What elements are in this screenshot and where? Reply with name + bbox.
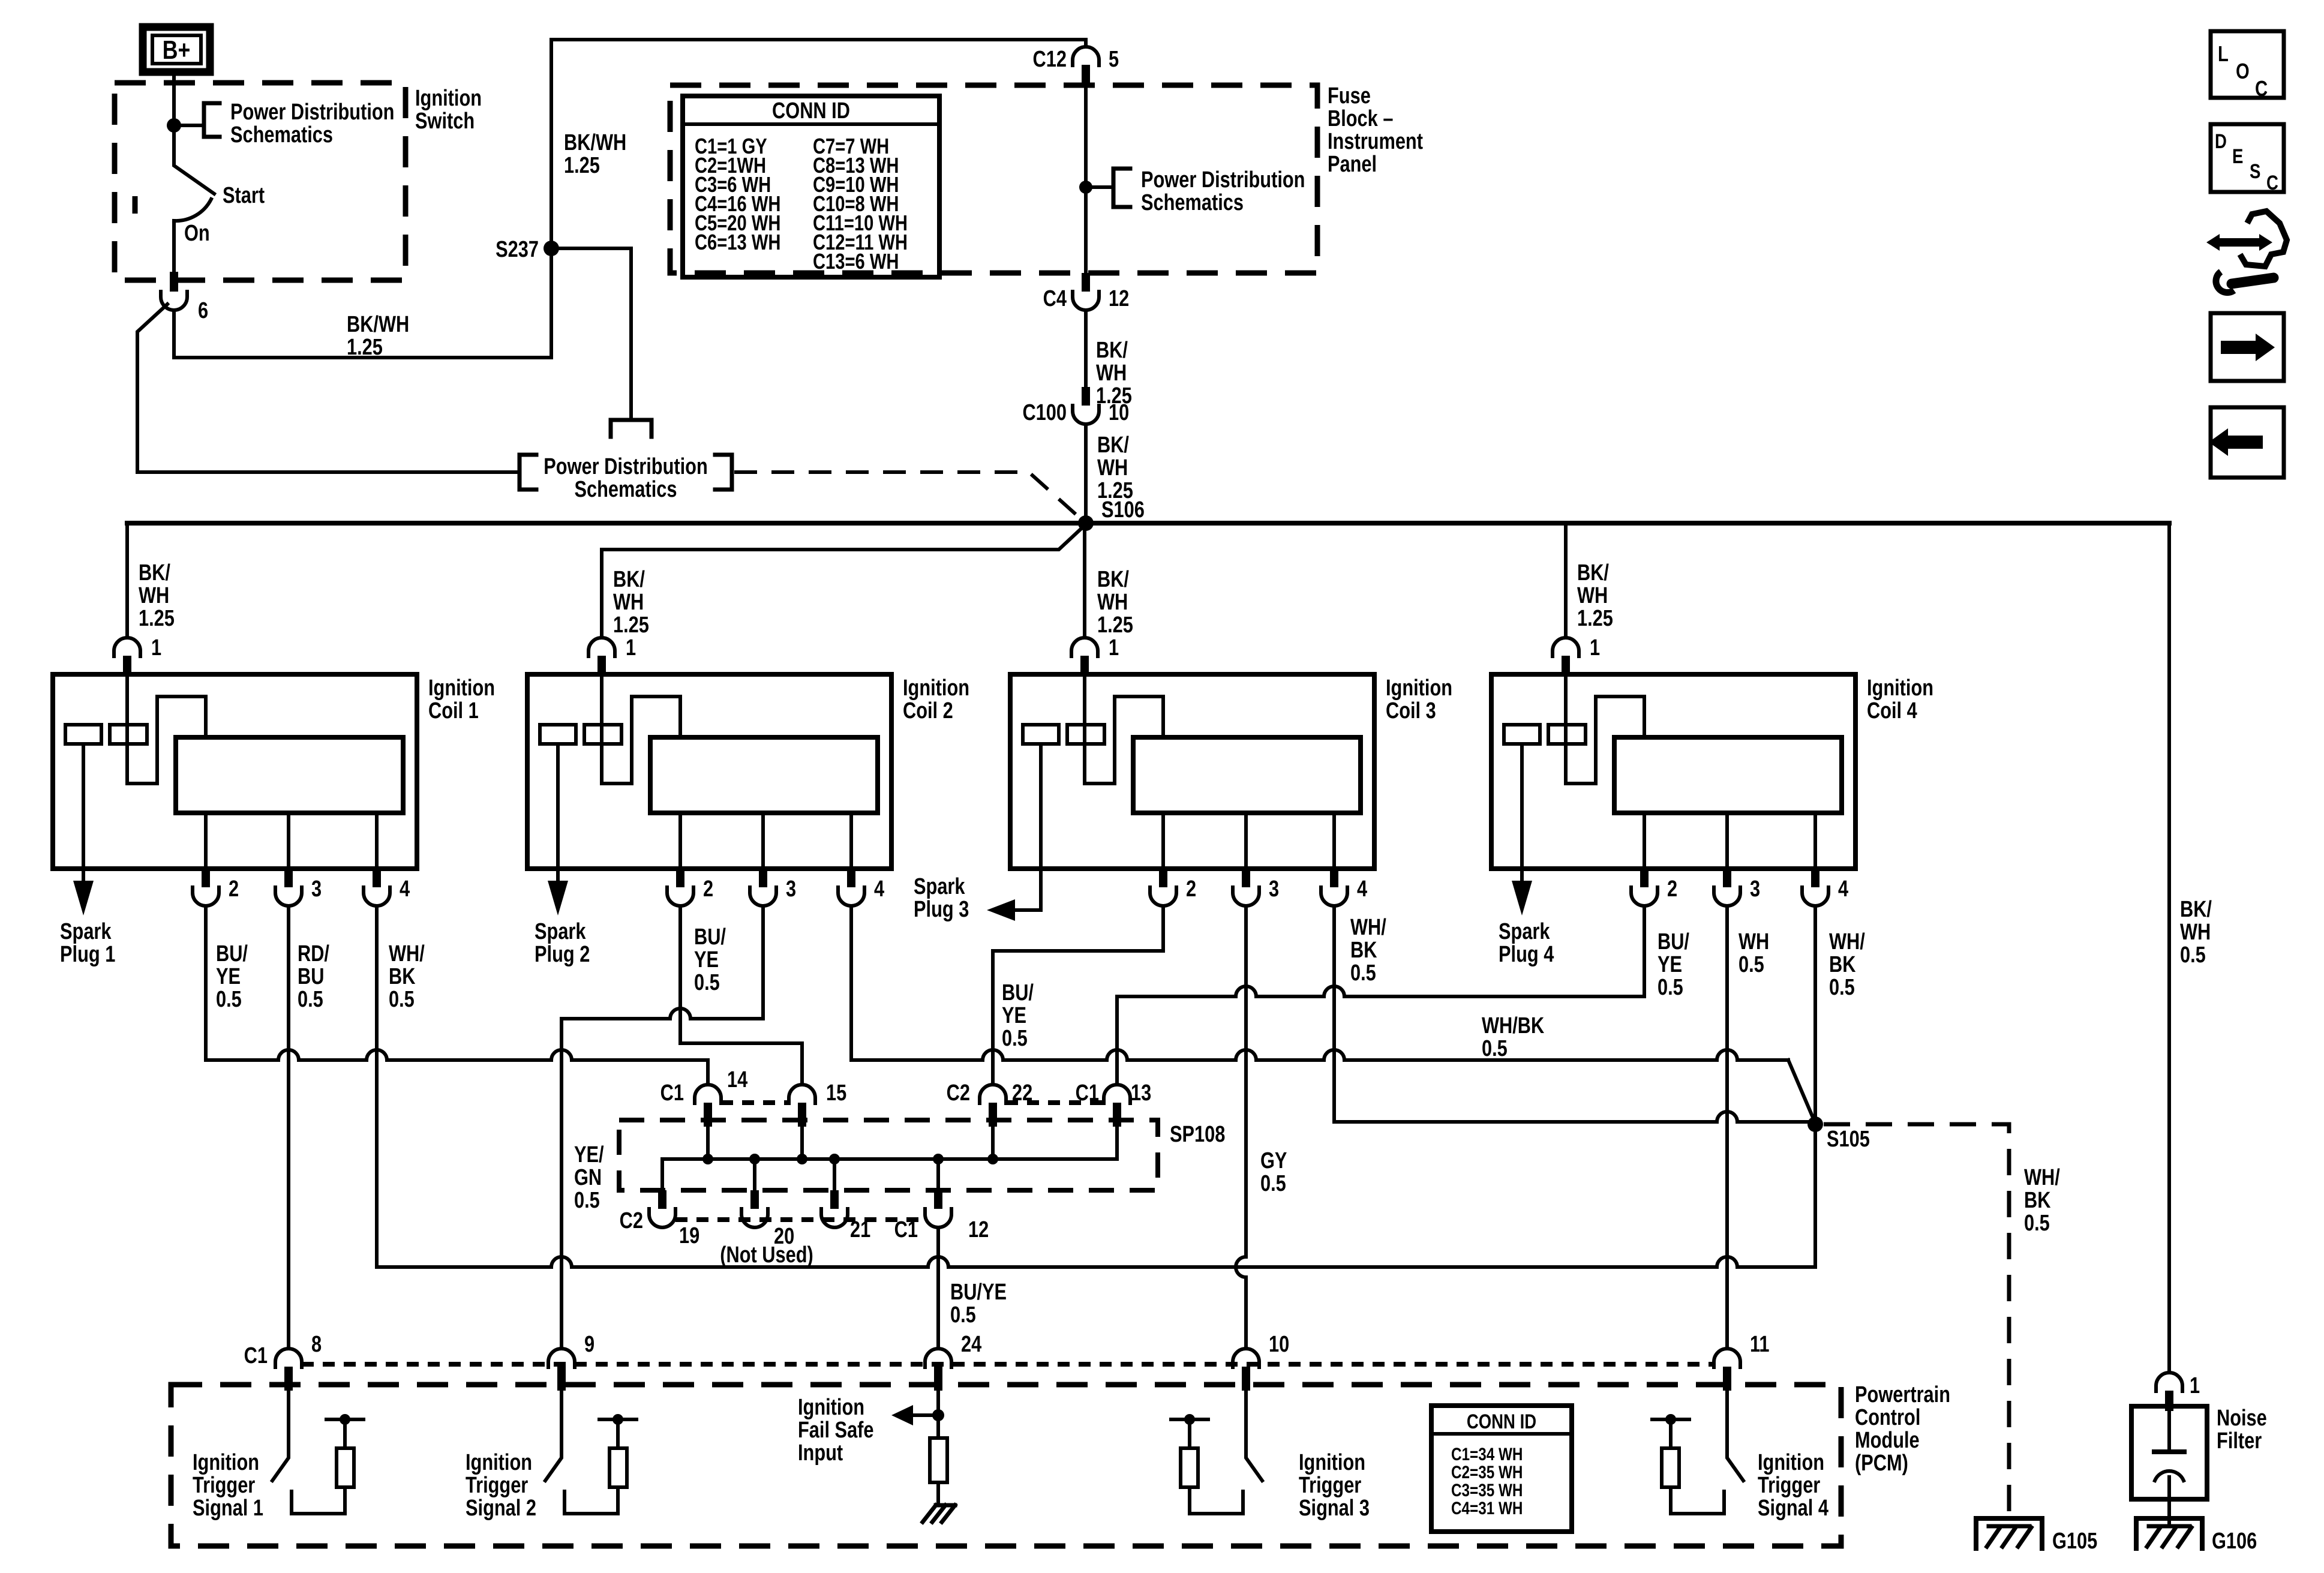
svg-text:13: 13: [1131, 1080, 1151, 1106]
svg-text:1.25: 1.25: [564, 153, 600, 178]
svg-text:22: 22: [1012, 1080, 1032, 1106]
svg-text:0.5: 0.5: [2180, 942, 2206, 968]
svg-text:0.5: 0.5: [574, 1188, 600, 1213]
svg-text:C: C: [2255, 76, 2268, 101]
svg-text:1.25: 1.25: [1097, 613, 1133, 638]
svg-text:12: 12: [968, 1217, 989, 1242]
svg-text:Ignition: Ignition: [1299, 1450, 1365, 1475]
svg-text:Powertrain: Powertrain: [1855, 1382, 1950, 1407]
svg-text:1: 1: [626, 635, 636, 661]
svg-text:Ignition: Ignition: [1867, 676, 1933, 701]
svg-text:D: D: [2215, 130, 2227, 152]
svg-text:C2=35 WH: C2=35 WH: [1451, 1462, 1523, 1482]
svg-text:Ignition: Ignition: [903, 676, 969, 701]
svg-text:Ignition: Ignition: [193, 1450, 259, 1475]
svg-text:BK/: BK/: [139, 560, 170, 586]
svg-text:B+: B+: [163, 36, 191, 65]
svg-text:0.5: 0.5: [216, 987, 242, 1012]
svg-text:C2: C2: [620, 1208, 643, 1233]
svg-text:Plug 4: Plug 4: [1499, 942, 1554, 967]
svg-text:0.5: 0.5: [2024, 1211, 2050, 1236]
svg-text:Fuse: Fuse: [1328, 83, 1371, 109]
svg-text:0.5: 0.5: [1002, 1026, 1028, 1051]
svg-text:0.5: 0.5: [1739, 952, 1764, 977]
svg-text:(Not Used): (Not Used): [720, 1242, 813, 1268]
svg-text:2: 2: [1667, 876, 1677, 902]
svg-text:GY: GY: [1260, 1148, 1287, 1173]
svg-text:Panel: Panel: [1328, 152, 1377, 177]
svg-text:GN: GN: [574, 1165, 602, 1190]
svg-text:11: 11: [1750, 1332, 1770, 1357]
svg-text:BK/WH: BK/WH: [564, 130, 626, 155]
svg-text:3: 3: [786, 876, 796, 902]
svg-text:BK: BK: [2024, 1188, 2050, 1213]
svg-text:Ignition: Ignition: [428, 676, 495, 701]
svg-text:YE/: YE/: [574, 1142, 604, 1167]
svg-text:C4: C4: [1043, 286, 1067, 311]
svg-text:9: 9: [584, 1332, 594, 1357]
svg-text:S237: S237: [496, 237, 539, 262]
svg-text:5: 5: [1109, 47, 1119, 72]
svg-text:YE: YE: [216, 964, 241, 989]
svg-text:O: O: [2236, 59, 2250, 83]
svg-text:8: 8: [311, 1332, 322, 1357]
svg-text:G105: G105: [2052, 1529, 2097, 1554]
svg-text:Spark: Spark: [1499, 919, 1550, 944]
svg-text:C1: C1: [660, 1080, 684, 1106]
svg-text:Block –: Block –: [1328, 106, 1393, 131]
svg-text:Trigger: Trigger: [466, 1473, 528, 1498]
svg-text:Power Distribution: Power Distribution: [1141, 167, 1305, 193]
svg-text:BU/: BU/: [1002, 980, 1034, 1005]
svg-text:1.25: 1.25: [1577, 606, 1613, 631]
svg-text:4: 4: [1838, 876, 1849, 902]
svg-text:BU/: BU/: [694, 924, 726, 950]
svg-text:C12: C12: [1033, 47, 1067, 72]
svg-text:1: 1: [1590, 635, 1600, 661]
svg-text:Schematics: Schematics: [574, 477, 677, 502]
svg-text:WH: WH: [139, 583, 169, 608]
svg-text:BK/: BK/: [613, 567, 645, 592]
svg-text:6: 6: [198, 298, 208, 323]
svg-text:BU: BU: [298, 964, 324, 989]
svg-text:SP108: SP108: [1170, 1122, 1225, 1147]
svg-text:G106: G106: [2212, 1529, 2257, 1554]
svg-text:Module: Module: [1855, 1428, 1920, 1453]
svg-text:0.5: 0.5: [1350, 960, 1376, 986]
svg-text:E: E: [2232, 145, 2243, 167]
svg-text:C1=34 WH: C1=34 WH: [1451, 1444, 1523, 1464]
svg-text:S: S: [2250, 160, 2260, 182]
svg-text:1: 1: [2190, 1373, 2200, 1398]
svg-text:YE: YE: [1002, 1003, 1026, 1028]
svg-text:Filter: Filter: [2217, 1428, 2262, 1454]
svg-text:BK: BK: [1350, 938, 1377, 963]
svg-text:0.5: 0.5: [1658, 975, 1683, 1000]
svg-text:C2: C2: [947, 1080, 970, 1106]
svg-text:4: 4: [400, 876, 410, 902]
svg-text:BK/: BK/: [1097, 433, 1129, 458]
svg-text:1: 1: [151, 635, 161, 661]
svg-text:BK/: BK/: [1096, 338, 1128, 363]
svg-text:WH/: WH/: [389, 941, 425, 966]
svg-text:C4=31 WH: C4=31 WH: [1451, 1498, 1523, 1518]
svg-text:Signal 1: Signal 1: [193, 1496, 263, 1521]
svg-text:2: 2: [1186, 876, 1196, 902]
svg-text:Fail Safe: Fail Safe: [798, 1418, 874, 1443]
svg-text:0.5: 0.5: [298, 987, 323, 1012]
svg-text:1.25: 1.25: [139, 606, 175, 631]
svg-text:1: 1: [1109, 635, 1119, 661]
svg-text:Ignition: Ignition: [1386, 676, 1452, 701]
svg-text:2: 2: [229, 876, 239, 902]
svg-text:WH: WH: [1096, 361, 1127, 386]
svg-text:BU/YE: BU/YE: [950, 1280, 1007, 1305]
svg-text:WH: WH: [613, 590, 644, 615]
svg-text:WH: WH: [1097, 590, 1128, 615]
svg-text:C1: C1: [1076, 1080, 1099, 1106]
svg-text:S105: S105: [1827, 1127, 1870, 1152]
svg-text:Plug 1: Plug 1: [60, 942, 115, 967]
svg-text:(PCM): (PCM): [1855, 1451, 1908, 1476]
svg-text:0.5: 0.5: [1829, 975, 1855, 1000]
svg-text:24: 24: [961, 1332, 982, 1357]
svg-text:Power Distribution: Power Distribution: [544, 454, 707, 479]
svg-text:15: 15: [826, 1080, 846, 1106]
svg-text:Plug 3: Plug 3: [914, 897, 969, 922]
svg-text:BK: BK: [1829, 952, 1855, 977]
svg-text:BU/: BU/: [216, 941, 248, 966]
svg-text:0.5: 0.5: [1260, 1171, 1286, 1196]
svg-text:Start: Start: [223, 183, 265, 208]
svg-text:14: 14: [727, 1067, 748, 1092]
svg-text:Trigger: Trigger: [193, 1473, 255, 1498]
svg-text:0.5: 0.5: [950, 1302, 976, 1328]
svg-text:19: 19: [679, 1223, 699, 1248]
svg-text:C1: C1: [894, 1217, 918, 1242]
svg-text:3: 3: [1750, 876, 1760, 902]
svg-text:12: 12: [1109, 286, 1129, 311]
svg-text:Spark: Spark: [535, 919, 586, 944]
svg-text:BK/: BK/: [2180, 897, 2212, 922]
svg-text:4: 4: [874, 876, 885, 902]
svg-text:YE: YE: [694, 947, 719, 972]
svg-text:Spark: Spark: [60, 919, 112, 944]
svg-text:CONN ID: CONN ID: [772, 98, 850, 124]
svg-text:BU/: BU/: [1658, 929, 1689, 954]
svg-text:21: 21: [850, 1217, 870, 1242]
svg-text:Coil 1: Coil 1: [428, 698, 479, 724]
svg-text:Spark: Spark: [914, 874, 965, 899]
svg-text:C: C: [2266, 171, 2278, 194]
svg-text:C13=6 WH: C13=6 WH: [813, 249, 899, 274]
svg-text:Noise: Noise: [2217, 1406, 2267, 1431]
svg-text:Schematics: Schematics: [230, 122, 333, 148]
svg-text:Ignition: Ignition: [466, 1450, 532, 1475]
svg-text:Ignition: Ignition: [798, 1395, 864, 1420]
svg-text:WH: WH: [1097, 455, 1128, 481]
svg-text:0.5: 0.5: [694, 970, 720, 995]
svg-text:S106: S106: [1101, 497, 1145, 523]
svg-text:BK: BK: [389, 964, 415, 989]
svg-text:Signal 4: Signal 4: [1758, 1496, 1829, 1521]
svg-text:2: 2: [703, 876, 713, 902]
svg-text:WH/BK: WH/BK: [1482, 1013, 1544, 1038]
svg-text:Switch: Switch: [415, 109, 475, 134]
svg-text:0.5: 0.5: [1482, 1036, 1508, 1061]
svg-text:On: On: [184, 221, 210, 246]
svg-text:Instrument: Instrument: [1328, 129, 1423, 154]
svg-text:WH/: WH/: [2024, 1165, 2060, 1190]
svg-text:BK/: BK/: [1097, 567, 1129, 592]
svg-text:YE: YE: [1658, 952, 1682, 977]
svg-text:RD/: RD/: [298, 941, 329, 966]
svg-text:10: 10: [1269, 1332, 1289, 1357]
svg-text:Control: Control: [1855, 1405, 1920, 1430]
svg-text:Ignition: Ignition: [415, 86, 482, 111]
svg-text:WH: WH: [2180, 920, 2211, 945]
svg-text:Signal 3: Signal 3: [1299, 1496, 1370, 1521]
svg-text:Power Distribution: Power Distribution: [230, 100, 394, 125]
svg-text:WH: WH: [1739, 929, 1769, 954]
svg-text:Ignition: Ignition: [1758, 1450, 1824, 1475]
svg-text:Coil 3: Coil 3: [1386, 698, 1436, 724]
svg-text:1.25: 1.25: [347, 335, 383, 360]
svg-text:1.25: 1.25: [613, 613, 649, 638]
svg-text:4: 4: [1357, 876, 1368, 902]
svg-text:C100: C100: [1022, 400, 1067, 425]
svg-text:Input: Input: [798, 1440, 843, 1466]
svg-text:WH: WH: [1577, 583, 1608, 608]
svg-text:WH/: WH/: [1350, 915, 1386, 940]
svg-text:Plug 2: Plug 2: [535, 942, 590, 967]
svg-text:C6=13 WH: C6=13 WH: [695, 230, 780, 254]
svg-text:Coil 4: Coil 4: [1867, 698, 1917, 724]
svg-text:C1: C1: [244, 1343, 268, 1368]
svg-text:10: 10: [1109, 400, 1129, 425]
svg-text:C3=35 WH: C3=35 WH: [1451, 1480, 1523, 1500]
svg-text:Signal 2: Signal 2: [466, 1496, 536, 1521]
svg-text:0.5: 0.5: [389, 987, 415, 1012]
svg-text:Schematics: Schematics: [1141, 190, 1244, 215]
svg-text:WH/: WH/: [1829, 929, 1865, 954]
svg-text:BK/: BK/: [1577, 560, 1609, 586]
svg-text:CONN ID: CONN ID: [1467, 1410, 1536, 1433]
svg-text:3: 3: [311, 876, 322, 902]
svg-text:Coil 2: Coil 2: [903, 698, 953, 724]
svg-text:Trigger: Trigger: [1299, 1473, 1361, 1498]
svg-text:L: L: [2218, 41, 2229, 66]
svg-text:BK/WH: BK/WH: [347, 312, 409, 337]
svg-text:Trigger: Trigger: [1758, 1473, 1820, 1498]
svg-text:3: 3: [1269, 876, 1279, 902]
